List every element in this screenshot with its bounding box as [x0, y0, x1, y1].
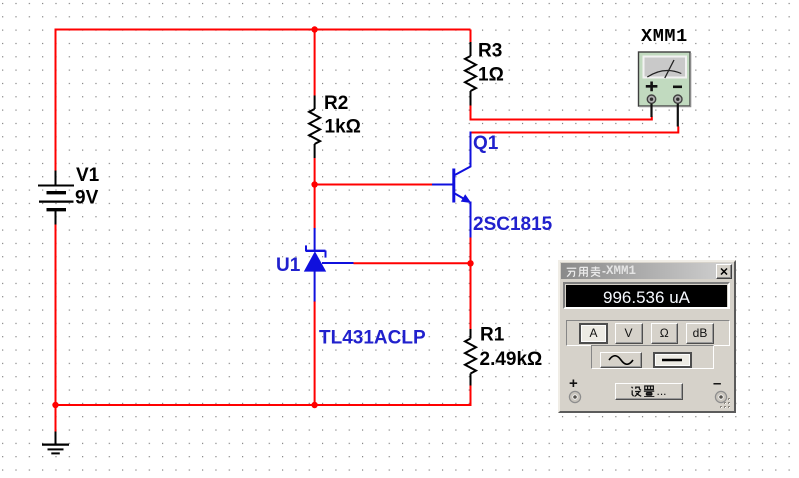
wire R2 bottom to base node: [314, 158, 316, 185]
glyph zhi: [643, 385, 655, 397]
glyph she: [630, 385, 642, 397]
glyph biao: [590, 266, 601, 277]
plus terminal jack: [568, 390, 582, 404]
svg-text:TL431ACLP: TL431ACLP: [319, 328, 426, 349]
wire R2 top: [314, 30, 316, 96]
multimeter panel XMM1: [558, 260, 736, 413]
wire R1 bottom: [470, 386, 472, 407]
button dB: [686, 323, 714, 344]
resistor R1: [465, 329, 476, 386]
svg-text:V1: V1: [76, 165, 100, 186]
wire U1 ref to emitter node: [354, 262, 471, 264]
svg-text:R3: R3: [478, 41, 502, 62]
resize grip: [718, 396, 732, 410]
button A (selected): [579, 323, 608, 344]
minus terminal jack: [714, 390, 728, 404]
wire U1 anode down to bottom rail: [314, 301, 316, 405]
button Ohm: [651, 323, 679, 344]
display readout 996.536 uA: [563, 282, 730, 309]
U1 triangle: [304, 251, 326, 271]
close button: [716, 264, 732, 279]
multimeter XMM1 icon: [639, 52, 691, 107]
resistor R2: [309, 96, 320, 159]
svg-text:2.49kΩ: 2.49kΩ: [480, 349, 543, 370]
button V: [615, 323, 643, 344]
button DC (selected): [653, 352, 693, 368]
mode group frame: [566, 320, 730, 346]
wire Q1 emitter to R1 top: [470, 237, 472, 329]
svg-text:R1: R1: [480, 325, 505, 346]
Q1 emitter arrow: [461, 194, 472, 203]
junction anode bottom: [311, 402, 317, 408]
waveform group frame: [591, 345, 715, 370]
wire left vertical (V1 plus lead): [55, 29, 57, 172]
button AC: [600, 352, 642, 368]
wire base node to Q1 base: [315, 184, 432, 186]
junction ground tap: [52, 402, 58, 408]
settings button: [615, 383, 683, 400]
svg-text:1Ω: 1Ω: [478, 65, 504, 86]
junction top R2: [311, 26, 317, 32]
svg-text:9V: 9V: [75, 188, 99, 209]
svg-text:2SC1815: 2SC1815: [473, 214, 553, 235]
glyph wan: [566, 266, 577, 277]
minus terminal label: [713, 375, 721, 392]
plus terminal label: [569, 375, 578, 392]
svg-text:R2: R2: [324, 93, 348, 114]
wire R3 bottom to XMM1 plus: [471, 106, 652, 120]
wire bottom rail: [56, 404, 471, 406]
svg-text:XMM1: XMM1: [641, 26, 688, 47]
junction base node: [311, 181, 317, 187]
wire V1 minus down: [55, 224, 57, 406]
XMM1 minus terminal: [674, 95, 682, 127]
panel title bar: [561, 263, 733, 279]
XMM1 plus terminal: [647, 95, 655, 117]
svg-text:U1: U1: [276, 255, 301, 276]
ground: [42, 432, 69, 454]
junction emitter node: [467, 260, 473, 266]
wire base node down to U1 cathode: [314, 185, 316, 229]
battery V1: [38, 171, 74, 225]
wire ground stub: [55, 405, 57, 432]
wire XMM1 minus to Q1 collector: [472, 127, 679, 133]
glyph yong: [578, 266, 589, 277]
svg-text:1kΩ: 1kΩ: [325, 117, 361, 138]
svg-text:Q1: Q1: [473, 133, 499, 154]
resistor R3: [465, 42, 476, 106]
shunt regulator U1: [306, 228, 354, 302]
wire R3 top lead: [470, 30, 472, 43]
transistor Q1: [432, 132, 471, 238]
wire top rail: [56, 29, 471, 31]
